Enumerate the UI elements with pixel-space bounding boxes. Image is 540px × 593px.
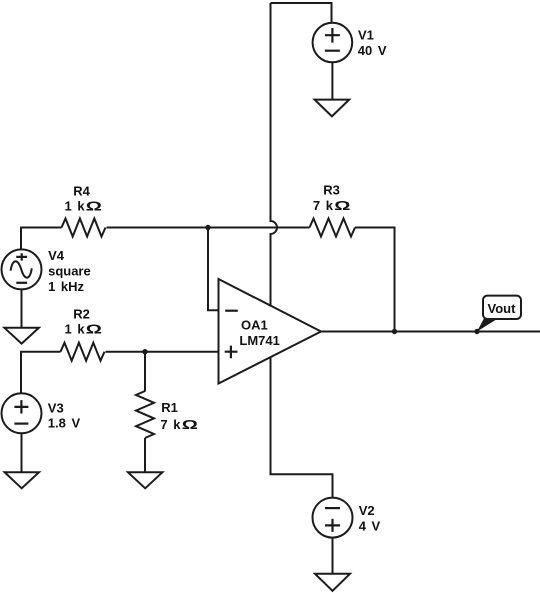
wire R2 to op-amp non-inverting input [106, 351, 219, 353]
wire V+ rail with hop over feedback wire down to op-amp V+ pin [271, 3, 278, 306]
wire R4 to R3 through node A [107, 227, 310, 229]
R2 value label 1 kOhm [65, 322, 102, 337]
ground below V2 [315, 574, 350, 591]
svg-text:R2: R2 [73, 307, 90, 322]
svg-text:1 kHz: 1 kHz [48, 279, 84, 294]
resistor R4 [62, 219, 106, 237]
svg-text:Ω: Ω [334, 199, 350, 214]
R1 name label [161, 400, 178, 415]
wire V3 to ground [21, 433, 23, 471]
V2 value label 4 V [359, 519, 381, 534]
wire V3 to R2 [21, 352, 61, 394]
wire R3 to output node [355, 228, 395, 332]
V4 type label square [48, 263, 91, 278]
OA1 part label LM741 [239, 333, 279, 348]
wire V1 to ground [331, 62, 333, 99]
wire top rail from V+ line to V1 [271, 2, 332, 23]
resistor R3 [310, 219, 356, 237]
OA1 name label [241, 317, 268, 332]
svg-text:1 k: 1 k [65, 199, 86, 214]
svg-text:R1: R1 [161, 400, 178, 415]
junction node Vout tap [474, 329, 479, 334]
voltage source V2 (reversed polarity) [313, 498, 353, 538]
Vout net label [488, 301, 517, 316]
resistor R1 (vertical) [136, 391, 154, 438]
V4 value label 1 kHz [48, 279, 84, 294]
op-amp OA1 LM741 triangle [219, 279, 322, 384]
wire V4 to R4 [21, 228, 62, 250]
V2 name label [359, 503, 375, 518]
wire V4 to ground [21, 289, 23, 327]
svg-text:V4: V4 [48, 248, 65, 263]
V1 name label [358, 28, 374, 43]
svg-text:40 V: 40 V [358, 43, 387, 58]
wire op-amp V- pin to V2 [271, 357, 333, 498]
op-amp inverting input minus symbol [225, 310, 238, 312]
R3 value label 7 kOhm [313, 198, 350, 213]
ground below R1 [128, 472, 162, 488]
voltage source V4 square 1 kHz [2, 249, 42, 289]
wire R1 to ground [144, 438, 146, 472]
V3 value label 1.8 V [48, 416, 81, 431]
svg-text:OA1: OA1 [241, 317, 268, 332]
V4 name label [48, 248, 65, 263]
wire op-amp output to right edge [321, 331, 540, 333]
V1 value label 40 V [358, 43, 387, 58]
svg-text:1.8 V: 1.8 V [48, 416, 81, 431]
junction node feedback on output [392, 329, 397, 334]
wire node B to R1 [144, 352, 146, 392]
svg-text:7 k: 7 k [160, 417, 181, 432]
voltage source V1 [313, 23, 353, 63]
op-amp non-inverting input plus symbol [225, 346, 238, 359]
R2 name label [73, 307, 90, 322]
Vout flag box [483, 296, 521, 319]
ground below V1 [315, 100, 350, 117]
svg-text:1 k: 1 k [65, 322, 86, 337]
svg-text:4 V: 4 V [359, 519, 381, 534]
wire V2 to ground [332, 538, 334, 574]
wire node A to op-amp inverting input [208, 228, 219, 311]
junction node A (inverting input branch) [205, 225, 210, 230]
Vout flag tail [477, 319, 498, 332]
svg-text:LM741: LM741 [239, 333, 279, 348]
svg-text:Vout: Vout [488, 301, 517, 316]
svg-text:V3: V3 [48, 401, 64, 416]
svg-text:R4: R4 [73, 184, 90, 199]
svg-text:R3: R3 [323, 183, 340, 198]
svg-text:V2: V2 [359, 503, 375, 518]
ground below V4 [4, 328, 39, 344]
svg-text:7 k: 7 k [313, 198, 334, 213]
svg-text:square: square [48, 263, 91, 278]
V3 name label [48, 401, 64, 416]
resistor R2 [61, 343, 105, 361]
svg-text:V1: V1 [358, 28, 374, 43]
svg-text:Ω: Ω [86, 199, 102, 214]
svg-text:Ω: Ω [86, 322, 102, 337]
R4 value label 1 kOhm [65, 199, 102, 214]
R3 name label [323, 183, 340, 198]
R4 name label [73, 184, 90, 199]
ground below V3 [5, 472, 39, 488]
junction node B (R1 tap) [142, 349, 147, 354]
voltage source V3 [2, 393, 42, 433]
R1 value label 7 kOhm [160, 417, 197, 432]
svg-text:Ω: Ω [182, 417, 198, 432]
